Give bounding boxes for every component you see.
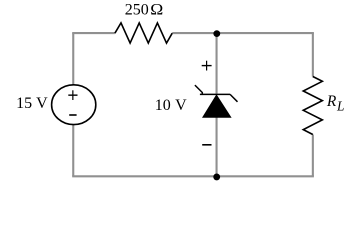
svg-text:V: V: [36, 95, 48, 112]
svg-text:10: 10: [155, 97, 171, 114]
svg-text:R: R: [326, 93, 337, 110]
svg-text:15: 15: [16, 95, 32, 112]
svg-text:250: 250: [125, 2, 149, 19]
svg-text:L: L: [336, 98, 344, 113]
svg-text:V: V: [175, 97, 187, 114]
svg-text:Ω: Ω: [150, 2, 163, 19]
